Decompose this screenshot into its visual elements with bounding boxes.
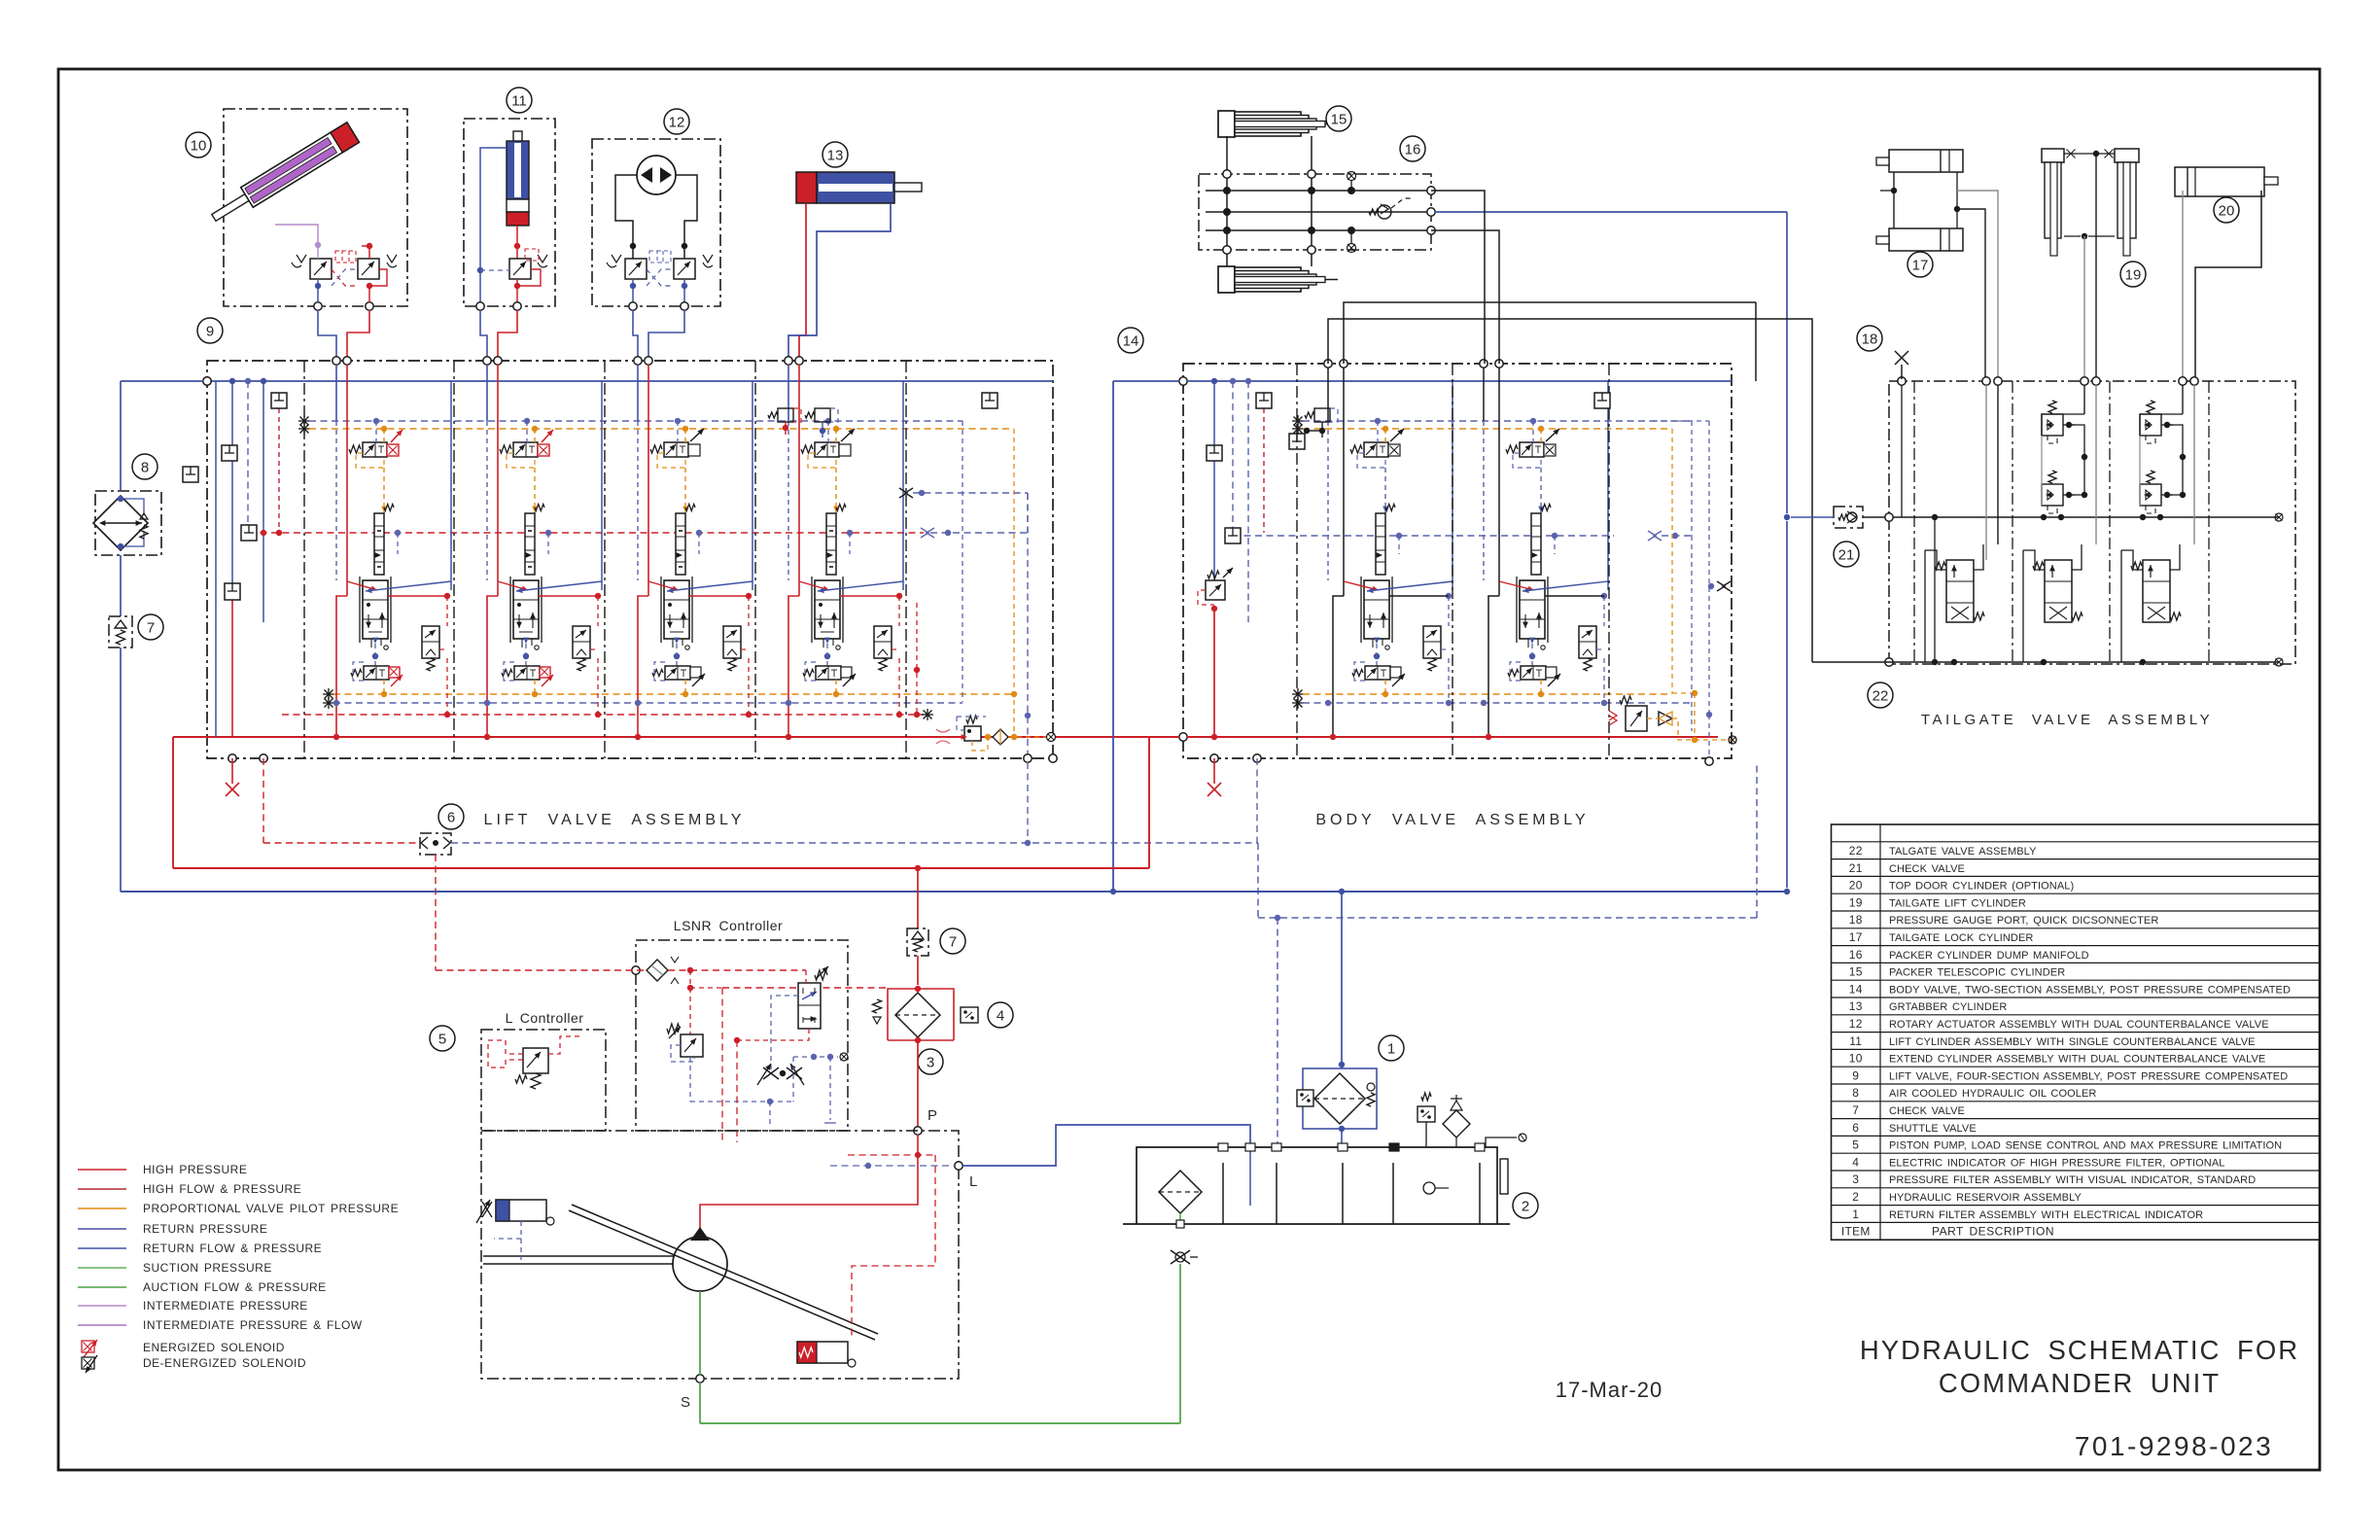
red LS dashed from lift to shuttle — [263, 842, 420, 844]
body main valve — [1364, 580, 1389, 639]
filter indicator box item 4 — [961, 1007, 978, 1023]
valve tails — [672, 639, 674, 647]
svg-text:PRESSURE FILTER ASSEMBLY WI: PRESSURE FILTER ASSEMBLY WITH VISUAL IND… — [1889, 1174, 2256, 1186]
CB red dashed pilot — [741, 648, 749, 650]
svg-text:PART DESCRIPTION: PART DESCRIPTION — [1932, 1225, 2054, 1239]
svg-text:EXTEND CYLINDER ASSEMBLY WI: EXTEND CYLINDER ASSEMBLY WITH DUAL COUNT… — [1889, 1054, 2265, 1066]
red riser to bus — [231, 600, 233, 737]
proportional solenoid pilot valve — [363, 442, 387, 457]
counterbalance valve left item 12 — [625, 259, 647, 279]
body blue return drop — [1374, 638, 1380, 644]
legend line HIGH — [78, 1169, 126, 1171]
red link valve to CB — [388, 595, 447, 597]
lower orange drop — [684, 680, 686, 694]
valve bottom red dashed — [737, 1029, 809, 1040]
svg-text:4: 4 — [1852, 1155, 1859, 1169]
compensator spool — [826, 513, 836, 575]
circled 18 — [1857, 326, 1882, 351]
lower blue dot — [635, 700, 641, 706]
legend line PROPORTIONAL — [78, 1207, 126, 1209]
circled 9 — [197, 318, 223, 343]
tg valve ports — [2121, 550, 2143, 570]
circled 10 — [186, 132, 211, 157]
right rails — [902, 381, 904, 590]
lower solenoid valve — [665, 666, 690, 680]
manifold check valve — [1378, 205, 1391, 219]
pump suction lines — [483, 1255, 675, 1257]
port right — [1486, 1137, 1517, 1147]
svg-text:RETURN PRESSURE: RETURN PRESSURE — [143, 1222, 267, 1236]
cyl 17 wires — [1893, 172, 1895, 228]
lower solenoid valve — [364, 666, 389, 680]
lower pilot dashed blue box — [353, 662, 364, 681]
svg-text:AIR COOLED HYDRAULIC OIL C: AIR COOLED HYDRAULIC OIL COOLER — [1889, 1088, 2096, 1100]
svg-text:6: 6 — [1852, 1121, 1859, 1135]
tailgate reducing valves — [2042, 414, 2063, 436]
spool top spring — [384, 505, 394, 511]
control cylinder right (red) — [797, 1342, 848, 1363]
body counterbalance — [1579, 626, 1596, 658]
spool top spring — [685, 505, 695, 511]
svg-text:11: 11 — [511, 92, 527, 109]
circled 19 — [2120, 262, 2146, 287]
tg valve ports — [2023, 550, 2045, 570]
proportional solenoid pilot valve — [815, 442, 839, 457]
sight glass right — [1500, 1159, 1508, 1194]
svg-text:3: 3 — [1852, 1172, 1859, 1186]
body section dividers — [1296, 364, 1298, 758]
svg-text:LIFT VALVE, FOUR-SECTION AS: LIFT VALVE, FOUR-SECTION ASSEMBLY, POST … — [1889, 1070, 2288, 1082]
lower pilot dashed blue box — [654, 662, 665, 681]
node ports box10 — [314, 302, 322, 310]
breather solenoid box — [1417, 1106, 1435, 1122]
L controller box — [481, 1030, 606, 1131]
bottom right node — [1705, 757, 1713, 765]
tg valve ports — [1925, 550, 1946, 570]
counterbalance valve left of item 10 — [310, 259, 332, 279]
circled 7 center — [940, 928, 965, 954]
crossing X right body — [1717, 581, 1731, 591]
L return blue — [962, 1125, 1250, 1166]
main proportional valve — [664, 580, 689, 639]
svg-text:DE-ENERGIZED SOLENOID: DE-ENERGIZED SOLENOID — [143, 1356, 306, 1370]
blue LS dashed from shuttle to right — [451, 842, 1258, 844]
LS red dashed entering — [436, 969, 647, 971]
valve tails — [822, 639, 824, 647]
svg-text:15: 15 — [1331, 111, 1347, 127]
suction strainer diamond — [1159, 1171, 1202, 1213]
svg-text:13: 13 — [827, 147, 844, 163]
CB red dashed pilot — [590, 648, 598, 650]
svg-text:LIFT VALVE ASSEMBLY: LIFT VALVE ASSEMBLY — [484, 812, 746, 828]
manifold right ports — [1427, 187, 1435, 194]
svg-text:14: 14 — [1123, 332, 1139, 349]
B port line red — [497, 365, 499, 596]
svg-text:BODY VALVE, TWO-SECTION ASS: BODY VALVE, TWO-SECTION ASSEMBLY, POST P… — [1889, 984, 2291, 996]
dashed blue lower bus — [1258, 917, 1757, 919]
blue dashed right risers body — [1691, 421, 1693, 536]
spool pilot dashed — [696, 530, 702, 536]
blue pilot link — [825, 418, 831, 424]
body blue return drop — [1529, 638, 1535, 644]
red test port X below lift box — [231, 758, 233, 784]
svg-text:BODY VALVE ASSEMBLY: BODY VALVE ASSEMBLY — [1315, 812, 1589, 828]
body section port lines — [1483, 367, 1485, 421]
blue pilot link — [524, 418, 530, 424]
svg-text:TAILGATE VALVE ASSEMBLY: TAILGATE VALVE ASSEMBLY — [1921, 712, 2213, 728]
packer cylinder links — [1226, 136, 1228, 266]
legend line HIGH — [78, 1188, 126, 1190]
cyl20 wires — [2182, 191, 2184, 379]
lift assembly red pressure bus — [173, 736, 1149, 738]
circled 4 — [988, 1002, 1013, 1028]
A port line blue — [486, 365, 488, 421]
port cap symbol — [271, 393, 287, 408]
lift valve assembly box item 9 — [207, 361, 1053, 758]
svg-text:L Controller: L Controller — [506, 1010, 584, 1026]
red dashed LS out of lift box — [262, 758, 264, 843]
main proportional valve — [513, 580, 539, 639]
counterbalance valve — [874, 626, 892, 658]
A port line blue — [787, 365, 789, 421]
counterbalance valve right item 12 — [674, 259, 695, 279]
svg-text:2: 2 — [1522, 1198, 1529, 1214]
svg-text:5: 5 — [1852, 1138, 1859, 1152]
dashed cross pilot lines item 10 — [332, 269, 358, 286]
extend cylinder assembly box item 10 — [224, 109, 407, 306]
circled 5 — [430, 1026, 455, 1051]
red line cyl10 to right CB valve — [368, 246, 370, 259]
body left cap lines — [1211, 378, 1217, 384]
proportional solenoid pilot valve — [664, 442, 688, 457]
svg-text:PACKER CYLINDER DUMP MANIFO: PACKER CYLINDER DUMP MANIFOLD — [1889, 950, 2089, 962]
svg-text:PISTON PUMP, LOAD SENSE CO: PISTON PUMP, LOAD SENSE CONTROL AND MAX … — [1889, 1140, 2282, 1152]
orange diamond vent — [993, 729, 1008, 745]
L controller red dashed — [488, 1040, 523, 1067]
body section port lines — [1327, 367, 1329, 421]
svg-text:ITEM: ITEM — [1841, 1225, 1871, 1239]
counterbalance valve item 11 — [509, 259, 531, 279]
tailgate reducing valve links — [1985, 385, 1987, 560]
blue return drop — [824, 638, 830, 644]
blue dashed pilot into pump box — [494, 1221, 521, 1239]
svg-text:16: 16 — [1405, 141, 1421, 157]
lift section port circles — [634, 357, 642, 365]
item11 blue wire — [480, 148, 507, 302]
unload valve right end — [964, 726, 981, 741]
solenoid relief pair section4 top — [778, 408, 793, 422]
svg-text:10: 10 — [191, 137, 207, 154]
wire red box10 to lift valve — [347, 310, 369, 359]
svg-text:22: 22 — [1872, 687, 1889, 704]
pilot dashed blue box — [1357, 453, 1385, 468]
left end cap lines of lift manifold — [215, 381, 217, 737]
manifold internal lines — [1206, 190, 1431, 192]
node ports box12 — [629, 302, 637, 310]
line break marks on red bus — [936, 729, 950, 744]
lift assembly blue supply bus — [203, 377, 211, 385]
wire blue box12 right to lift valve — [648, 310, 684, 359]
right end section of lift assembly — [982, 393, 997, 408]
body lower solenoid — [1521, 666, 1546, 680]
svg-text:HYDRAULIC RESERVOIR ASSEMBLY: HYDRAULIC RESERVOIR ASSEMBLY — [1889, 1192, 2082, 1204]
crossing work lines — [498, 581, 528, 590]
LS inline filter diamond — [647, 960, 668, 981]
spool pilot dashed — [395, 530, 401, 536]
svg-text:COMMANDER UNIT: COMMANDER UNIT — [1939, 1368, 2221, 1398]
wire blue box10 to lift valve — [318, 310, 336, 359]
svg-text:P: P — [927, 1107, 938, 1124]
svg-text:12: 12 — [1849, 1017, 1863, 1031]
filter riser blue — [1341, 892, 1343, 1068]
body right rails — [1452, 381, 1453, 590]
packer dump manifold box item 16 — [1199, 174, 1431, 250]
svg-text:15: 15 — [1849, 965, 1863, 979]
item 18 gauge port X — [1895, 351, 1908, 365]
breather filter — [1443, 1110, 1470, 1137]
lift assembly dashed orange pilot bus top — [298, 428, 310, 430]
rotary actuator assembly box item 12 — [592, 139, 720, 306]
unload orange loop — [972, 737, 988, 751]
control cylinder left — [496, 1200, 546, 1221]
lower solenoid valve — [514, 666, 540, 680]
B port line red — [346, 365, 348, 596]
red link valve to CB — [689, 595, 749, 597]
item11 red loop — [517, 269, 541, 286]
LSNR pressure valve — [798, 983, 821, 1029]
reservoir internal walls — [1222, 1163, 1224, 1224]
body compensator spool — [1531, 513, 1541, 575]
flow control blue dashed links — [792, 1057, 794, 1102]
body valve assembly box item 14 — [1183, 364, 1732, 758]
manifold star ports — [1347, 172, 1356, 181]
valve blue dashed pilot — [771, 996, 798, 1069]
red path inside pump box — [700, 1135, 918, 1238]
pilot dashed blue box — [1513, 453, 1541, 468]
flow control valves — [763, 1067, 779, 1079]
filter electrical indicator — [1297, 1090, 1313, 1106]
body right rails — [1607, 381, 1609, 590]
blue pilot link — [675, 418, 681, 424]
tailgate lock cylinder item 17 — [1889, 150, 1963, 172]
lift section port circles — [332, 357, 340, 365]
body dashed orange pilot bus top — [1292, 428, 1304, 430]
air cooled oil cooler item 8 — [95, 491, 161, 555]
red link valve to CB — [840, 595, 899, 597]
svg-text:21: 21 — [1838, 546, 1855, 563]
lower blue dot — [484, 700, 490, 706]
compensator spool — [525, 513, 535, 575]
main proportional valve — [815, 580, 840, 639]
packer telescopic cylinder bottom — [1218, 266, 1235, 293]
svg-text:19: 19 — [2125, 266, 2142, 283]
svg-text:RETURN FILTER ASSEMBLY WITH: RETURN FILTER ASSEMBLY WITH ELECTRICAL I… — [1889, 1209, 2203, 1221]
lift cylinder assembly box item 11 — [464, 119, 555, 306]
rotary actuator motor circle — [637, 156, 676, 194]
tailgate top ports — [1898, 377, 1906, 385]
body pilot valve — [1520, 442, 1544, 457]
svg-text:11: 11 — [1849, 1034, 1862, 1048]
lift cylinder (blue, vertical) — [513, 131, 522, 155]
svg-text:8: 8 — [141, 459, 149, 475]
CB red dashed pilot — [892, 648, 899, 650]
circled 2 — [1513, 1193, 1538, 1218]
cooler bypass — [121, 499, 144, 515]
circled 3 — [918, 1049, 943, 1074]
legend energized solenoid — [82, 1341, 94, 1352]
counterbalance valve — [422, 626, 439, 658]
orange pilot drop — [682, 426, 688, 432]
A port line blue — [637, 365, 639, 421]
blue return drop — [523, 638, 529, 644]
svg-text:SHUTTLE VALVE: SHUTTLE VALVE — [1889, 1123, 1977, 1135]
red supply drop to filter — [917, 868, 919, 928]
red dash pilot right-end — [916, 603, 918, 715]
wire blue box12 left to lift valve — [633, 310, 638, 359]
pump S port — [696, 1375, 704, 1382]
compensator spool — [676, 513, 685, 575]
lift section port circles — [785, 357, 792, 365]
cooler line blue — [118, 496, 123, 502]
svg-text:HYDRAULIC SCHEMATIC FOR: HYDRAULIC SCHEMATIC FOR — [1860, 1335, 2299, 1365]
svg-text:LIFT CYLINDER ASSEMBLY WITH: LIFT CYLINDER ASSEMBLY WITH SINGLE COUNT… — [1889, 1036, 2256, 1048]
black line manifold down to body valve — [1431, 191, 1485, 364]
svg-text:17: 17 — [1912, 257, 1929, 273]
svg-text:PRESSURE GAUGE PORT, QUICK: PRESSURE GAUGE PORT, QUICK DICSONNECTER — [1889, 915, 2158, 927]
body assembly blue supply bus — [1179, 377, 1187, 385]
LS riser 1057 — [1027, 493, 1029, 758]
svg-text:TAILGATE LIFT CYLINDER: TAILGATE LIFT CYLINDER — [1889, 897, 2026, 909]
tailgate left verticals — [1901, 385, 1903, 517]
svg-text:22: 22 — [1849, 844, 1863, 857]
svg-text:8: 8 — [1852, 1086, 1859, 1100]
lower blue dot — [333, 700, 339, 706]
compensator spool — [374, 513, 384, 575]
blue link left CB — [317, 279, 319, 286]
LSNR controller box — [636, 940, 848, 1131]
counterbalance valve — [723, 626, 741, 658]
svg-text:21: 21 — [1849, 861, 1863, 875]
svg-text:17: 17 — [1849, 930, 1863, 944]
relief to drain blue dashed — [689, 1057, 691, 1102]
lift bottom dashed orange bus — [323, 693, 334, 695]
gray pair риса — [1755, 302, 1757, 381]
orange pilot drop — [833, 426, 839, 432]
svg-text:ENERGIZED SOLENOID: ENERGIZED SOLENOID — [143, 1341, 285, 1354]
circled 12 — [664, 109, 689, 134]
svg-text:LSNR Controller: LSNR Controller — [674, 918, 783, 933]
svg-text:1: 1 — [1852, 1207, 1859, 1221]
svg-text:HIGH FLOW & PRESSURE: HIGH FLOW & PRESSURE — [143, 1182, 301, 1196]
filter bypass spring — [873, 999, 882, 1013]
orange link to right edge — [1011, 734, 1017, 740]
rotary actuator wires to counterbalance valves — [615, 175, 637, 259]
cooler diamond — [93, 496, 148, 550]
P port — [914, 1127, 922, 1135]
body main valve — [1520, 580, 1545, 639]
tailgate internal T bus — [1885, 658, 1893, 666]
blue line manifold to tailgate return — [1435, 211, 1787, 213]
lower orange drop — [383, 680, 385, 694]
cyl19 wires — [2064, 153, 2115, 155]
svg-text:12: 12 — [669, 114, 685, 130]
lower solenoid valve — [816, 666, 841, 680]
red pressure main bus — [173, 867, 1149, 869]
lower pilot dashed blue box — [805, 662, 816, 681]
svg-text:TALGATE VALVE ASSEMBLY: TALGATE VALVE ASSEMBLY — [1889, 846, 2037, 857]
body section port circles — [1480, 360, 1487, 367]
blue dashed riser at 990 — [962, 421, 963, 702]
svg-text:ROTARY ACTUATOR ASSEMBLY WI: ROTARY ACTUATOR ASSEMBLY WITH DUAL COUNT… — [1889, 1019, 2269, 1031]
circled 13 — [822, 142, 848, 167]
bottom edge nodes lift box — [228, 754, 236, 762]
B port line red — [798, 365, 800, 596]
red dashed drop from shuttle — [435, 855, 437, 970]
spool top spring — [836, 505, 846, 511]
port cap symbol — [222, 445, 237, 461]
lower orange drop — [534, 680, 536, 694]
lift bottom dashed blue bus — [323, 702, 334, 704]
X flow symbol mid — [899, 488, 913, 498]
body LS dashed line — [1233, 535, 1614, 537]
body red riser — [1213, 609, 1215, 737]
svg-text:20: 20 — [1849, 879, 1863, 892]
svg-text:L: L — [969, 1173, 979, 1190]
red riser body assembly — [1148, 737, 1150, 868]
svg-text:CHECK VALVE: CHECK VALVE — [1889, 863, 1965, 875]
svg-text:14: 14 — [1849, 982, 1863, 996]
spool pilot dashed — [545, 530, 551, 536]
body dashed blue pilot bus top — [1292, 420, 1304, 422]
B port line red — [647, 365, 649, 596]
X at red dash bus right — [922, 714, 933, 716]
LS input node — [632, 966, 640, 974]
wire blue cyl13 down — [788, 203, 891, 359]
svg-text:7: 7 — [1852, 1103, 1859, 1117]
pilot dashed orange box — [808, 453, 836, 468]
wire red box11 to lift valve — [498, 310, 517, 359]
svg-text:18: 18 — [1862, 331, 1878, 347]
lift section port circles — [483, 357, 491, 365]
black line body to tailgate bottom — [1328, 319, 1812, 662]
tailgate right edge ports — [2275, 513, 2283, 521]
circled 7 — [138, 614, 163, 640]
main return blue bus — [121, 891, 1787, 892]
LS line vent X — [921, 528, 934, 538]
svg-text:18: 18 — [1849, 913, 1863, 927]
legend line RETURN — [78, 1228, 126, 1230]
packer telescopic cylinder top item 15 — [1218, 111, 1235, 137]
bottom edge nodes body box — [1210, 754, 1218, 762]
svg-text:CHECK VALVE: CHECK VALVE — [1889, 1105, 1965, 1117]
counterbalance valve right of item 10 — [358, 259, 379, 279]
item11 red wire cylinder to valve — [516, 226, 518, 259]
parts table — [1832, 824, 2320, 1240]
body section port circles — [1324, 360, 1332, 367]
crossing work lines — [648, 581, 679, 590]
blue down to main return bus — [120, 647, 122, 892]
svg-text:3: 3 — [927, 1054, 934, 1070]
shuttle valve item 6 — [420, 833, 451, 855]
blue return drop — [674, 638, 680, 644]
return filter assembly item 1 — [1303, 1068, 1377, 1129]
circled 1 — [1379, 1035, 1404, 1061]
svg-text:AUCTION FLOW & PRESSURE: AUCTION FLOW & PRESSURE — [143, 1280, 327, 1294]
LSNR relief valve — [681, 1034, 703, 1057]
check valve item 7 (center) — [907, 928, 928, 956]
level gauge — [1423, 1182, 1435, 1194]
red riser lift assembly — [172, 737, 174, 868]
